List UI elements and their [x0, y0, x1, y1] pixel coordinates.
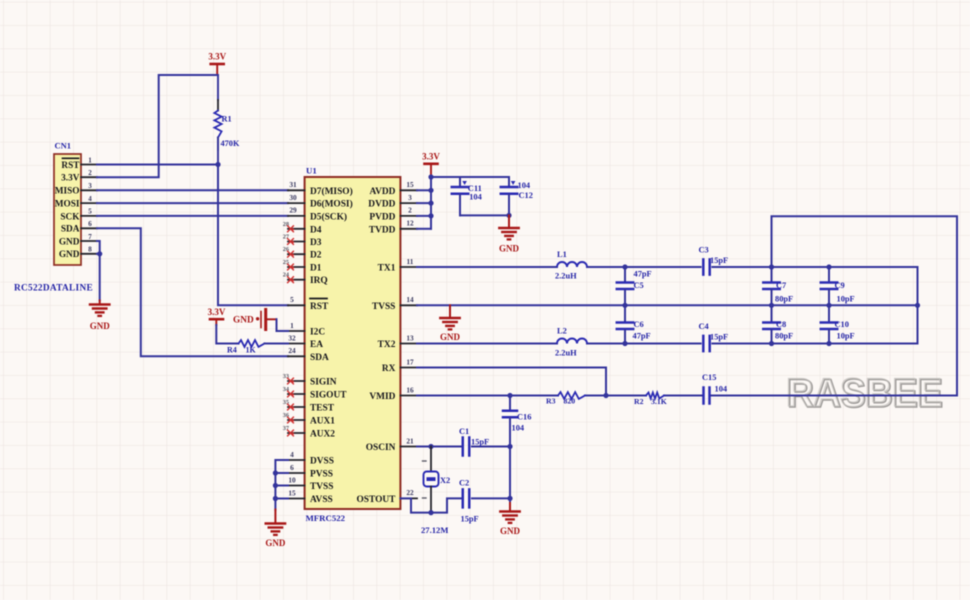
- svg-text:D6(MOSI): D6(MOSI): [310, 199, 353, 210]
- svg-text:5: 5: [290, 295, 294, 304]
- svg-text:13: 13: [406, 333, 414, 342]
- wire MOSI: [97, 202, 288, 204]
- resistor R2 3.1K: [634, 393, 667, 407]
- ground GND (CN1): [90, 301, 111, 332]
- svg-text:AVDD: AVDD: [370, 187, 396, 197]
- svg-text:C3: C3: [699, 246, 709, 255]
- svg-text:OSCIN: OSCIN: [366, 443, 396, 453]
- svg-text:104: 104: [518, 181, 531, 190]
- svg-text:15pF: 15pF: [710, 333, 728, 342]
- capacitor C9 10pF: [821, 267, 855, 305]
- svg-text:31: 31: [289, 180, 297, 189]
- ground GND bar (I2C): [233, 310, 277, 330]
- svg-text:DVDD: DVDD: [368, 200, 395, 210]
- svg-text:L1: L1: [557, 250, 567, 259]
- svg-text:GND: GND: [265, 538, 286, 548]
- resistor R3 820: [546, 392, 585, 405]
- wire SCK: [97, 215, 288, 217]
- capacitor C15 104: [702, 373, 728, 404]
- svg-text:24: 24: [288, 346, 296, 355]
- ground GND (TVSS): [440, 305, 461, 342]
- wire decoupling bottom rail: [460, 214, 509, 216]
- capacitor C7 80pF: [763, 267, 793, 305]
- svg-text:1K: 1K: [246, 346, 257, 355]
- svg-text:820: 820: [564, 397, 576, 406]
- svg-text:C6: C6: [634, 320, 644, 329]
- svg-text:IRQ: IRQ: [310, 276, 328, 286]
- svg-text:RASBEE: RASBEE: [786, 371, 942, 415]
- capacitor C5 47pF: [617, 267, 652, 305]
- svg-text:16: 16: [406, 385, 414, 394]
- wire TVSS net: [417, 303, 920, 308]
- capacitor C16 104: [503, 396, 531, 447]
- svg-text:6: 6: [290, 463, 294, 472]
- svg-text:TEST: TEST: [310, 404, 335, 414]
- ground GND (oscillator): [500, 503, 521, 536]
- power 3.3V (R4): [208, 307, 226, 325]
- svg-text:3: 3: [408, 193, 412, 202]
- power 3.3V (VDD rail): [422, 151, 440, 177]
- svg-text:SIGOUT: SIGOUT: [310, 391, 347, 401]
- capacitor C8 80pF: [763, 305, 793, 343]
- svg-text:C15: C15: [702, 373, 716, 382]
- svg-text:R2: R2: [634, 397, 644, 406]
- svg-text:D5(SCK): D5(SCK): [310, 211, 347, 222]
- svg-text:470K: 470K: [221, 139, 240, 148]
- svg-text:15pF: 15pF: [710, 256, 728, 265]
- capacitor C4 15pF: [699, 322, 729, 351]
- svg-text:D2: D2: [310, 251, 322, 261]
- svg-text:AUX2: AUX2: [310, 430, 335, 440]
- svg-text:12: 12: [406, 219, 414, 228]
- svg-text:1: 1: [290, 321, 294, 330]
- svg-text:MFRC522: MFRC522: [306, 513, 346, 523]
- svg-text:3.3V: 3.3V: [61, 174, 80, 184]
- svg-text:TVSS: TVSS: [310, 482, 333, 492]
- wire TX1 net: [417, 264, 918, 269]
- wire CN1 GND: [97, 241, 102, 301]
- svg-text:6: 6: [88, 220, 92, 228]
- svg-text:GND: GND: [90, 321, 111, 331]
- svg-text:GND: GND: [59, 250, 80, 260]
- capacitor C6 47pF: [617, 305, 651, 343]
- capacitor C1 15pF: [459, 427, 489, 456]
- svg-text:C16: C16: [517, 413, 531, 422]
- inductor L2 2.2uH: [555, 327, 587, 358]
- svg-text:4: 4: [88, 195, 92, 203]
- svg-text:2.2uH: 2.2uH: [555, 349, 577, 358]
- svg-text:15pF: 15pF: [471, 438, 489, 447]
- svg-text:1: 1: [88, 156, 92, 164]
- ground GND (U1 VSS): [265, 510, 286, 549]
- svg-text:11: 11: [407, 257, 414, 266]
- svg-text:15pF: 15pF: [461, 515, 479, 524]
- U1 left pins: [288, 186, 353, 505]
- svg-text:D7(MISO): D7(MISO): [310, 186, 353, 197]
- svg-text:R3: R3: [546, 397, 556, 406]
- wire SDA net: [97, 228, 288, 356]
- wire antenna loop: [772, 216, 958, 395]
- svg-text:D4: D4: [310, 225, 322, 235]
- svg-text:R4: R4: [227, 346, 237, 355]
- svg-text:GND: GND: [59, 237, 80, 247]
- svg-text:3.3V: 3.3V: [422, 151, 440, 161]
- svg-text:17: 17: [406, 357, 414, 366]
- svg-text:104: 104: [715, 385, 728, 394]
- resistor R4 1K: [216, 325, 288, 355]
- svg-text:PVSS: PVSS: [310, 470, 333, 480]
- svg-text:C4: C4: [699, 322, 710, 331]
- svg-text:SDA: SDA: [61, 225, 80, 235]
- svg-text:RX: RX: [382, 364, 396, 374]
- svg-text:104: 104: [512, 424, 525, 433]
- svg-text:MISO: MISO: [55, 187, 80, 197]
- svg-text:3.1K: 3.1K: [651, 397, 667, 406]
- svg-text:104: 104: [469, 193, 482, 202]
- svg-text:VMID: VMID: [369, 392, 395, 402]
- svg-text:U1: U1: [306, 166, 317, 176]
- U1 left pin numbers: [283, 180, 297, 497]
- svg-text:10: 10: [288, 475, 296, 484]
- svg-text:7: 7: [88, 233, 92, 241]
- svg-text:C9: C9: [835, 281, 845, 290]
- wire OSTOUT net: [400, 496, 512, 515]
- wire VSS pins to ground: [273, 460, 288, 510]
- svg-text:GND: GND: [440, 332, 461, 342]
- crystal X2 27.12M: [421, 447, 450, 536]
- svg-text:30: 30: [289, 193, 297, 202]
- power 3.3V (top, R1): [208, 52, 226, 76]
- inductor L1 2.2uH: [555, 250, 587, 281]
- svg-text:14: 14: [406, 295, 414, 304]
- wire MISO: [97, 189, 288, 191]
- wire TX2 net: [417, 341, 918, 346]
- wire VDD rail: [417, 174, 509, 228]
- capacitor C11 104: [452, 177, 483, 215]
- svg-text:C1: C1: [459, 427, 469, 436]
- svg-text:I2C: I2C: [310, 328, 325, 338]
- ground GND (decoupling): [499, 215, 520, 253]
- svg-text:3.3V: 3.3V: [208, 307, 226, 317]
- wire to oscillator ground: [509, 447, 511, 506]
- svg-text:RST: RST: [310, 302, 329, 312]
- svg-text:15: 15: [406, 180, 414, 189]
- U1 right pins: [356, 187, 417, 505]
- svg-text:TX2: TX2: [378, 340, 396, 350]
- svg-text:80pF: 80pF: [775, 295, 793, 304]
- svg-text:47pF: 47pF: [634, 270, 652, 279]
- svg-text:TVDD: TVDD: [369, 225, 396, 235]
- svg-text:2: 2: [408, 206, 412, 215]
- svg-text:C12: C12: [519, 191, 533, 200]
- svg-text:10pF: 10pF: [837, 295, 855, 304]
- svg-text:27.12M: 27.12M: [421, 525, 448, 535]
- capacitor C2 15pF: [459, 479, 479, 524]
- resistor R1 470K: [214, 75, 240, 165]
- svg-text:15: 15: [288, 488, 296, 497]
- svg-text:PVDD: PVDD: [369, 212, 395, 222]
- svg-text:C2: C2: [459, 479, 469, 488]
- svg-text:SIGIN: SIGIN: [310, 378, 337, 388]
- svg-text:80pF: 80pF: [775, 332, 793, 341]
- svg-text:10pF: 10pF: [837, 332, 855, 341]
- svg-text:22: 22: [406, 488, 414, 497]
- wire I2C net: [277, 319, 289, 331]
- svg-text:C8: C8: [776, 320, 786, 329]
- svg-text:SCK: SCK: [60, 212, 80, 222]
- wire RX net: [417, 368, 609, 399]
- svg-text:D1: D1: [310, 264, 322, 274]
- svg-text:AUX1: AUX1: [310, 417, 335, 427]
- svg-text:29: 29: [289, 206, 297, 215]
- svg-text:RST: RST: [61, 161, 80, 171]
- svg-text:L2: L2: [557, 327, 567, 336]
- wire OSCIN net: [417, 444, 513, 449]
- capacitor C3 15pF: [699, 246, 729, 275]
- svg-text:47pF: 47pF: [633, 332, 651, 341]
- svg-text:5: 5: [88, 208, 92, 216]
- svg-text:4: 4: [290, 450, 294, 459]
- svg-text:GND: GND: [499, 244, 520, 254]
- svg-text:32: 32: [288, 333, 296, 342]
- svg-text:AVSS: AVSS: [310, 495, 333, 505]
- svg-text:8: 8: [88, 246, 92, 254]
- svg-text:3.3V: 3.3V: [208, 52, 226, 62]
- svg-text:DVSS: DVSS: [310, 457, 334, 467]
- svg-text:X2: X2: [440, 476, 450, 485]
- svg-text:TX1: TX1: [378, 264, 396, 274]
- svg-text:SDA: SDA: [310, 353, 329, 363]
- svg-text:C7: C7: [776, 281, 786, 290]
- svg-text:GND: GND: [233, 316, 254, 326]
- svg-text:EA: EA: [310, 340, 323, 350]
- svg-text:OSTOUT: OSTOUT: [356, 495, 396, 505]
- svg-text:GND: GND: [500, 526, 521, 536]
- svg-text:2.2uH: 2.2uH: [555, 272, 577, 281]
- ic U1 MFRC522 body: [305, 166, 401, 524]
- svg-text:R1: R1: [222, 115, 232, 124]
- watermark RASBEE: [786, 371, 943, 416]
- svg-text:TVSS: TVSS: [372, 302, 395, 312]
- svg-text:MOSI: MOSI: [55, 200, 80, 210]
- U1 right pin numbers: [406, 180, 414, 497]
- connector CN1: [54, 141, 97, 266]
- svg-text:CN1: CN1: [55, 141, 72, 151]
- svg-text:RC522DATALINE: RC522DATALINE: [14, 284, 93, 294]
- svg-text:C10: C10: [835, 320, 849, 329]
- wire 3.3V net (CN1 pin2 to R1 top): [97, 75, 218, 177]
- svg-text:D3: D3: [310, 238, 322, 248]
- U1 no-connect X marks: [288, 226, 295, 436]
- wire VMID net: [417, 393, 957, 398]
- svg-text:2: 2: [88, 169, 92, 177]
- capacitor C10 10pF: [821, 305, 855, 343]
- wire RST net: [97, 162, 288, 305]
- capacitor C12 104: [501, 177, 533, 215]
- svg-text:3: 3: [88, 182, 92, 190]
- svg-text:C5: C5: [634, 281, 644, 290]
- svg-text:21: 21: [406, 436, 414, 445]
